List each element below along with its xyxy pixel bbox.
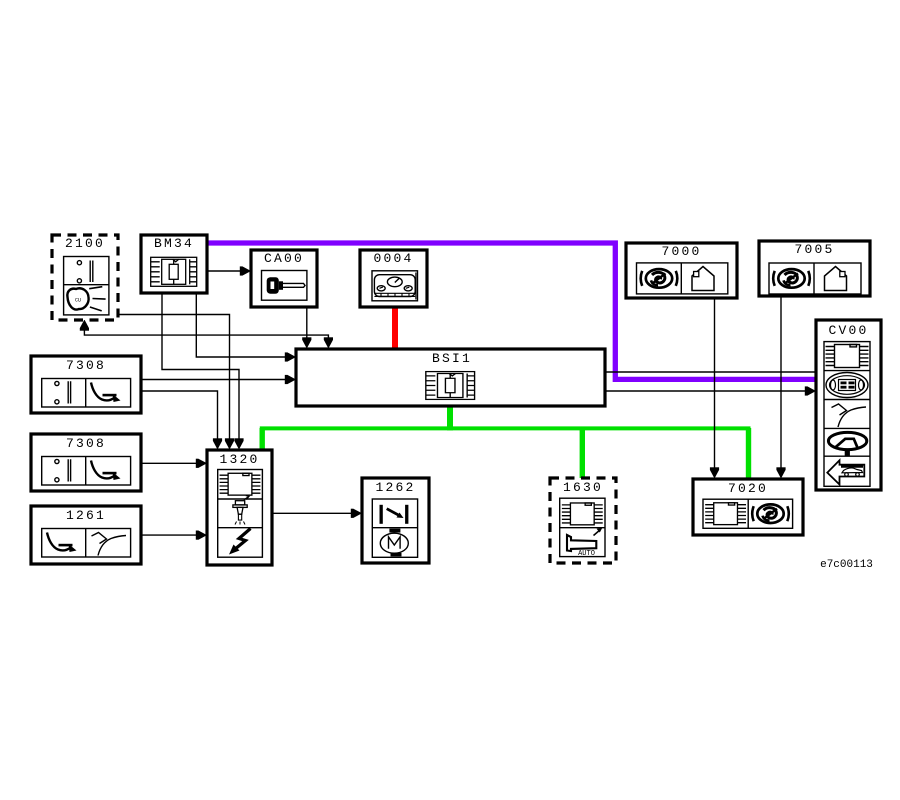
svg-text:0004: 0004 <box>373 251 413 266</box>
svg-text:2100: 2100 <box>65 236 105 251</box>
svg-text:CA00: CA00 <box>264 251 304 266</box>
svg-text:7308: 7308 <box>66 358 106 373</box>
svg-text:e7c00113: e7c00113 <box>820 559 873 571</box>
svg-text:CV00: CV00 <box>828 323 868 338</box>
svg-text:BM34: BM34 <box>154 236 194 251</box>
svg-text:1262: 1262 <box>375 480 415 495</box>
svg-text:1320: 1320 <box>219 452 259 467</box>
svg-text:BSI1: BSI1 <box>432 351 472 366</box>
svg-text:1630: 1630 <box>563 480 603 495</box>
svg-text:7000: 7000 <box>661 244 701 259</box>
svg-text:CU: CU <box>75 298 81 304</box>
svg-text:7308: 7308 <box>66 436 106 451</box>
svg-text:7005: 7005 <box>794 242 834 257</box>
svg-text:AUTO: AUTO <box>578 550 595 558</box>
svg-text:7020: 7020 <box>728 481 768 496</box>
svg-text:1261: 1261 <box>66 508 106 523</box>
